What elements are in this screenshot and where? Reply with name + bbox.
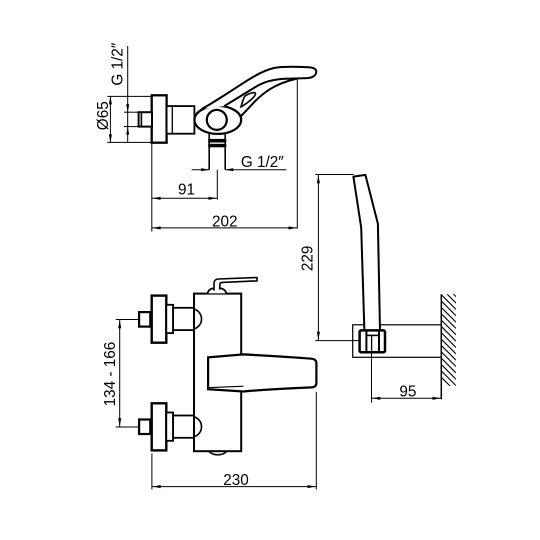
nipple edge extension stubs <box>124 111 139 113</box>
top inlet: step <box>166 305 173 333</box>
bottom inlet: step <box>166 413 173 441</box>
dim G 1/2 top: leader line <box>127 46 129 143</box>
shower holder cup <box>360 330 385 352</box>
dim 230 left extension <box>151 454 153 490</box>
wall flange (side view) <box>152 95 167 142</box>
top inlet: nut <box>139 312 150 327</box>
lever handle front view <box>214 278 257 291</box>
dim 95 line <box>372 397 442 399</box>
cup center line <box>371 335 373 351</box>
dim 230 right extension <box>315 392 317 490</box>
faucet body pipe <box>167 106 195 134</box>
svg-text:202: 202 <box>212 214 238 231</box>
spout pipe below body <box>208 133 210 170</box>
dim 229 top extension <box>315 174 353 176</box>
dim G 1/2 top arrows <box>126 104 129 112</box>
wall hatching <box>441 282 456 392</box>
dim 134-166 line <box>119 320 121 428</box>
faucet body front view <box>194 294 241 452</box>
dim 229 line <box>317 175 319 341</box>
dim 91 wall extension line <box>151 144 153 232</box>
dim 91 line <box>152 197 218 199</box>
dim 134-166 extension lines <box>116 319 139 321</box>
dim 95 left extension (cup centerline) <box>371 352 373 402</box>
cartridge oval body <box>194 106 241 134</box>
pipe joint line <box>171 106 173 133</box>
spout inner cone line <box>208 386 243 388</box>
bottom outlet arc <box>209 451 227 454</box>
spout front view <box>208 354 316 391</box>
lever neck collar curve <box>241 79 297 117</box>
dim G 1/2 bottom lines <box>192 169 210 171</box>
inlet nipple G1/2 <box>139 112 152 126</box>
cartridge circle <box>207 110 227 130</box>
dim 202 line <box>152 227 297 229</box>
dim O65 extension lines <box>107 95 151 97</box>
cartridge dome cap <box>208 288 227 293</box>
svg-text:229: 229 <box>299 246 316 272</box>
cup inner cone lines <box>365 332 367 352</box>
lever tab fin <box>241 93 255 107</box>
svg-text:230: 230 <box>223 472 249 489</box>
dim 202 handle extension line <box>296 79 298 228</box>
svg-text:Ø65: Ø65 <box>95 101 112 130</box>
bottom inlet: arc cap in body <box>194 417 201 437</box>
lever handle blade fill (side view) <box>202 67 317 109</box>
top inlet: pipe <box>173 308 194 330</box>
bottom inlet: pipe <box>173 416 194 438</box>
bottom inlet: nut <box>139 420 150 435</box>
top inlet: arc cap in body <box>194 309 201 329</box>
dim 230 line <box>152 486 316 488</box>
top inlet: escutcheon <box>152 296 167 343</box>
hand shower wand <box>353 175 380 331</box>
svg-text:134 - 166: 134 - 166 <box>102 342 119 407</box>
cup inner horizontal <box>366 334 379 336</box>
lever handle blade outline <box>202 67 317 109</box>
spout centerline extension <box>216 170 218 200</box>
shower bracket plate <box>353 325 442 358</box>
svg-text:G 1/2″: G 1/2″ <box>241 154 284 171</box>
svg-text:91: 91 <box>178 181 195 198</box>
nipple relief line <box>140 112 142 126</box>
spout thread bands <box>208 139 226 143</box>
svg-text:G 1/2″: G 1/2″ <box>110 42 127 85</box>
dim O65 line <box>109 96 111 142</box>
dim 229 bottom extension <box>315 340 359 342</box>
wall line <box>440 294 442 399</box>
bottom inlet: escutcheon <box>152 403 167 450</box>
svg-text:95: 95 <box>399 383 416 400</box>
